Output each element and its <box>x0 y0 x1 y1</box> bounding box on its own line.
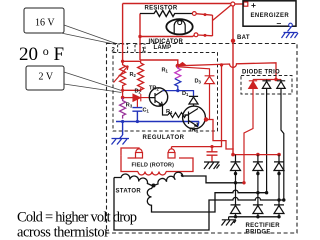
ground (energizer, blue) <box>282 27 299 39</box>
trio diode right <box>277 80 285 94</box>
svg-text:RECTIFIER: RECTIFIER <box>246 223 281 229</box>
resistor (charge lamp shunt) <box>140 11 192 17</box>
wire: stator left phase to bridge phase 3 <box>114 178 284 231</box>
resistor R4 <box>168 113 189 118</box>
svg-text:DIODE TRIO: DIODE TRIO <box>242 70 280 76</box>
alternator housing dashed box <box>107 44 298 234</box>
svg-text:BAT: BAT <box>237 35 250 41</box>
svg-text:BRIDGE: BRIDGE <box>246 230 271 236</box>
svg-text:R1: R1 <box>162 68 169 74</box>
svg-text:LAMP: LAMP <box>154 45 172 51</box>
switch contact (lamp side) <box>194 33 198 37</box>
terminal 2 square <box>118 44 128 53</box>
ground (capacitor, black) <box>204 162 220 169</box>
node: TR1 collector <box>204 117 208 121</box>
wire: field feed from trio line <box>220 63 223 66</box>
wire: lamp branch <box>140 35 195 37</box>
node: BAT terminal <box>231 39 235 43</box>
wire: TR2 emitter to R4 <box>163 105 169 115</box>
node: R1 bottom <box>176 89 179 92</box>
stator phase right coil <box>154 172 183 185</box>
wire: trio top bus <box>253 79 281 81</box>
diode D2 <box>133 94 150 101</box>
diode D3 <box>205 76 215 84</box>
svg-text:D2: D2 <box>135 89 142 95</box>
regulator dashed box <box>113 53 218 132</box>
wire: terminal1 to node <box>140 60 178 64</box>
wire: ground drop <box>122 122 124 136</box>
svg-text:D1: D1 <box>182 91 189 97</box>
callout box 16 V <box>24 8 64 33</box>
thermistor (variable resistor) <box>114 61 129 89</box>
trio diode middle <box>262 80 270 94</box>
rectifier bridge column 2 <box>253 155 263 217</box>
svg-text:across thermistor: across thermistor <box>17 225 109 240</box>
wire: TR1 emitter to ground rail <box>198 122 199 127</box>
wire: divider top rail <box>123 61 141 63</box>
trio diode left (red) <box>249 80 257 94</box>
svg-text:C1: C1 <box>143 108 150 114</box>
capacitor C1 <box>132 108 142 122</box>
wire: battery + top rail <box>123 3 231 5</box>
indicator lamp bulb <box>166 19 192 34</box>
wire: divider bottom rail <box>123 87 141 90</box>
node: trio/R1 node with arrow <box>176 64 180 68</box>
svg-text:D3: D3 <box>195 79 202 85</box>
rectifier bridge column 1 <box>231 155 241 217</box>
stator phase left coil <box>114 174 152 186</box>
svg-text:20 o F: 20 o F <box>19 44 64 65</box>
brush (field, right) <box>168 147 175 158</box>
ground (regulator, blue) <box>112 135 130 145</box>
wire: terminal 1 wire <box>139 14 141 61</box>
node: stator star point <box>152 184 156 188</box>
wire: battery main vertical (BAT) <box>232 6 234 155</box>
switch hinge contact at battery node <box>231 2 235 6</box>
transistor TR1 <box>183 106 206 129</box>
wire: TR1 collector chain <box>206 120 234 150</box>
diode D1 <box>189 96 198 104</box>
callout box 2 V <box>26 66 64 90</box>
terminal 1 square <box>135 44 145 53</box>
svg-text:RESISTOR: RESISTOR <box>145 6 178 12</box>
wire: D1 bottom lead <box>193 104 195 106</box>
svg-text:REGULATOR: REGULATOR <box>143 135 185 141</box>
resistor R1 upper (magenta) <box>175 66 181 79</box>
wire: stator bottom phase to bridge phase 2 <box>152 190 267 212</box>
wire: R1 bottom to TR2 collector and D1 (blue) <box>163 91 194 97</box>
wire: bridge bottom bus <box>229 216 279 218</box>
wire: regulator ground rail (blue) <box>116 121 199 123</box>
wire: trio middle to phase 2 <box>266 94 268 193</box>
switch contact (resistor side) <box>192 12 196 16</box>
svg-text:+: + <box>251 0 256 10</box>
transistor TR2 <box>149 88 167 106</box>
capacitor (noise suppression) <box>207 147 218 162</box>
energizer + terminal square <box>244 2 248 6</box>
wire: D3 anode down to TR1 collector <box>206 84 210 120</box>
wire: D3 branch <box>178 67 210 76</box>
svg-text:2 V: 2 V <box>39 72 54 83</box>
wire: trio output line to node (with hop over BAT wire) <box>178 63 276 78</box>
diode trio dashed box <box>241 76 292 95</box>
svg-text:ENERGIZER: ENERGIZER <box>251 13 290 19</box>
node: lamp/terminal1 junction <box>138 35 141 38</box>
stator phase bottom coil <box>147 186 153 207</box>
field winding coils <box>138 172 166 176</box>
energizer (battery) box <box>243 1 296 26</box>
svg-text:–: – <box>277 18 282 28</box>
resistor R2 <box>138 63 144 92</box>
rectifier bridge column 3 <box>274 155 284 217</box>
node: zener drive node <box>121 96 125 100</box>
brush (field, left) <box>121 148 143 158</box>
field rotor winding loop <box>121 156 193 172</box>
callout leader lines from 2 V box to thermistor node <box>64 72 122 93</box>
wire: stator right phase to bridge phase 1 <box>181 175 244 183</box>
svg-text:Cold = higher volt drop: Cold = higher volt drop <box>17 210 137 226</box>
node: divider top <box>121 60 124 63</box>
wire: trio right to phase 3 <box>281 94 284 201</box>
svg-text:R2: R2 <box>130 72 137 78</box>
wire: terminal 2 sense wire <box>122 4 124 62</box>
svg-text:FIELD (ROTOR): FIELD (ROTOR) <box>132 163 175 169</box>
svg-text:16 V: 16 V <box>35 18 55 29</box>
wire: trio left to phase 1 (red) <box>244 94 253 183</box>
wire: bridge top bus (+) <box>233 154 279 156</box>
wire: divider mid stem <box>122 90 124 97</box>
ignition switch blades <box>196 5 231 37</box>
wire: C1 top lead <box>136 98 138 108</box>
svg-text:STATOR: STATOR <box>116 189 142 195</box>
wire: node to D2 and C1 <box>123 97 133 99</box>
resistor R3 <box>120 98 126 119</box>
wire: battery positive lead <box>235 3 244 5</box>
energizer negative terminal <box>289 23 293 27</box>
callout leader lines from 16 V box to terminal 2 <box>61 25 116 45</box>
svg-text:R3: R3 <box>126 103 133 109</box>
ground (rectifier bridge) <box>222 217 237 226</box>
resistor R1 lower (blue) <box>175 79 181 91</box>
